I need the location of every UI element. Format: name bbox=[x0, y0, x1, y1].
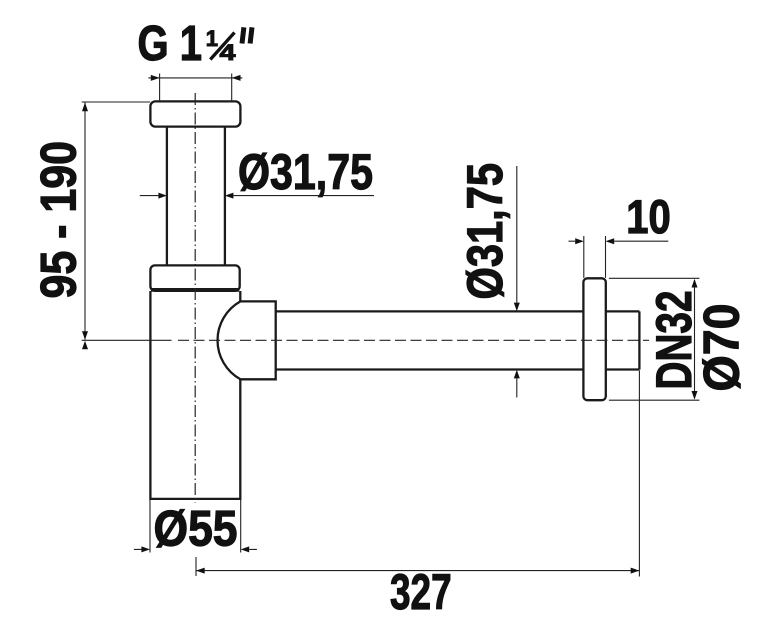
svg-text:G 1: G 1 bbox=[138, 17, 203, 71]
extension lines, dimension G 1 1/4 bbox=[160, 74, 232, 102]
dimension lines diameter 31,75 tailpipe bbox=[140, 195, 374, 197]
dimension line G 1 1/4 bbox=[148, 77, 242, 79]
extension lines, dimension diameter 70 bbox=[609, 278, 700, 400]
horizontal outlet pipe bbox=[276, 311, 640, 369]
inlet tailpipe walls bbox=[167, 127, 225, 266]
label inch double prime bbox=[242, 27, 252, 43]
svg-text:327: 327 bbox=[390, 563, 452, 620]
outlet elbow boss bbox=[218, 301, 276, 379]
label fraction slash bbox=[210, 33, 234, 60]
arrowhead left, G 1 1/4 bbox=[151, 75, 160, 81]
arrowhead bottom, diameter 70 bbox=[692, 391, 698, 400]
dimension line 327 bbox=[196, 570, 639, 572]
arrowhead left, dimension 10 bbox=[575, 238, 584, 244]
arrowhead left, diameter 31,75 tailpipe bbox=[158, 193, 167, 199]
svg-text:1: 1 bbox=[206, 26, 218, 51]
svg-text:10: 10 bbox=[626, 190, 671, 243]
extension lines, dimension 10 bbox=[584, 236, 606, 278]
union nut on trap body bbox=[150, 265, 239, 290]
extension lines, dimension 327 bbox=[196, 370, 639, 576]
arrowhead up, 95-190 range mark bbox=[82, 341, 88, 350]
arrowhead right, dimension 327 bbox=[631, 568, 640, 574]
arrowhead right, G 1 1/4 bbox=[232, 75, 241, 81]
trap cup body bbox=[150, 291, 240, 499]
svg-text:Ø31,75: Ø31,75 bbox=[456, 163, 513, 300]
svg-text:Ø31,75: Ø31,75 bbox=[238, 143, 373, 200]
vertical centerline of trap body bbox=[194, 93, 196, 503]
extension line top, dimension 95-190 bbox=[82, 101, 151, 103]
top flange (G 1 1/4 inlet collar) bbox=[150, 101, 240, 126]
arrowhead left, diameter 55 bbox=[141, 546, 150, 552]
dimension lines, dimension diameter 55 bbox=[134, 548, 257, 550]
arrowhead down, 95-190 range mark bbox=[82, 331, 88, 340]
dimension line diameter 70 bbox=[694, 280, 696, 399]
svg-text:Ø70: Ø70 bbox=[693, 304, 750, 392]
svg-text:95 - 190: 95 - 190 bbox=[30, 141, 87, 299]
arrowhead right, diameter 55 bbox=[241, 546, 250, 552]
arrowhead right, dimension 10 bbox=[606, 238, 615, 244]
arrowhead left, dimension 327 bbox=[196, 568, 205, 574]
extension lines, dimension diameter 55 bbox=[150, 500, 241, 553]
arrowhead top, 95-190 bbox=[82, 103, 88, 112]
arrowhead top, diameter 70 bbox=[692, 279, 698, 288]
dimension lines diameter 31,75 outlet pipe bbox=[516, 166, 518, 398]
svg-text:4: 4 bbox=[220, 40, 237, 65]
arrowhead top, diameter 31,75 outlet pipe bbox=[514, 303, 520, 312]
arrowhead right, diameter 31,75 tailpipe bbox=[225, 193, 234, 199]
dimension line 95-190 bbox=[84, 103, 86, 340]
nut joint thick seam bbox=[151, 288, 239, 292]
extension line bottom, dimension 95-190 bbox=[82, 339, 172, 341]
dimension lines, dimension 10 bbox=[569, 240, 669, 242]
horizontal centerline of outlet pipe bbox=[178, 339, 649, 341]
svg-text:Ø55: Ø55 bbox=[154, 500, 238, 557]
wall rosette flange bbox=[583, 278, 605, 400]
arrowhead bottom, diameter 31,75 outlet pipe bbox=[514, 370, 520, 379]
